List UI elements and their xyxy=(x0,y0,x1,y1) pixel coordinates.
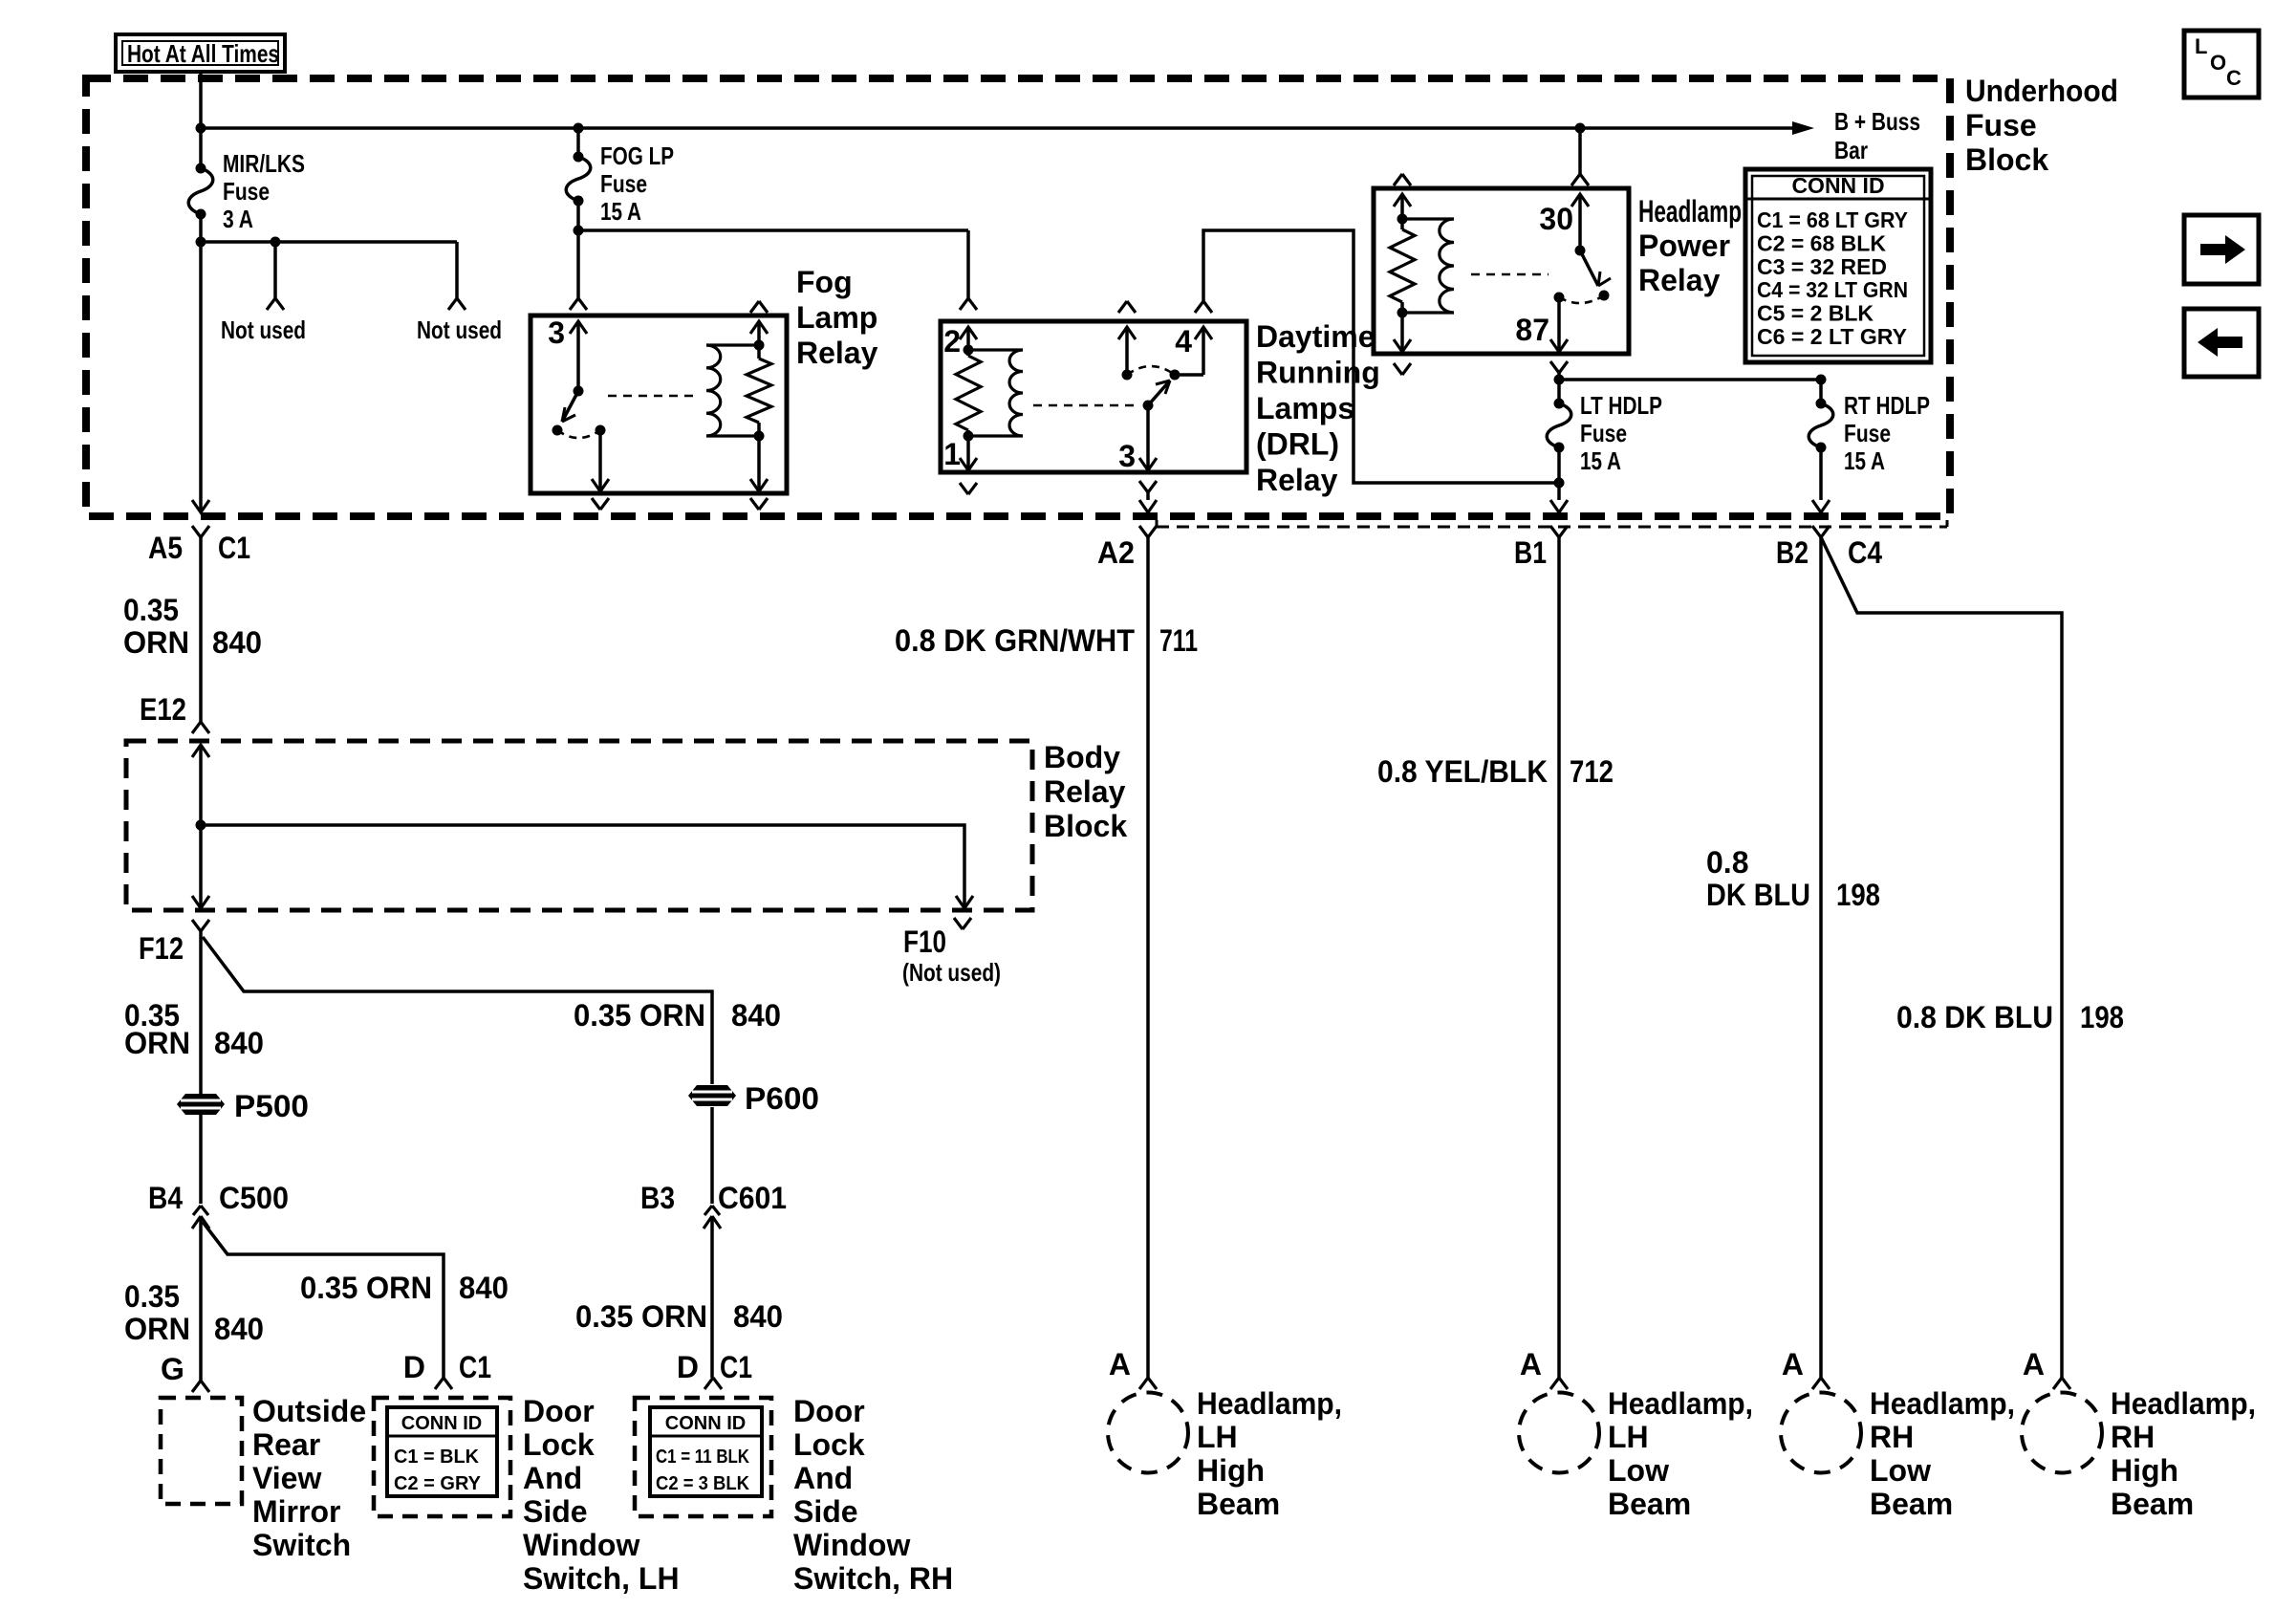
svg-text:C500: C500 xyxy=(219,1181,289,1215)
wire: F12 to P500 / mirror switch xyxy=(199,931,203,1204)
svg-text:ORN: ORN xyxy=(124,1312,190,1346)
table: CONN ID (underhood fuse block) xyxy=(1745,169,1931,362)
coil pin bottom arrow xyxy=(750,479,768,491)
DRL pin 3 exit arrow xyxy=(1139,458,1157,470)
wire: body relay block internal xyxy=(196,745,965,906)
svg-text:Side: Side xyxy=(523,1494,588,1529)
fuse: RT HDLP Fuse 15 A xyxy=(1809,375,1833,453)
E12 entry arrow xyxy=(192,745,209,757)
svg-text:FOG LP: FOG LP xyxy=(600,141,674,170)
svg-text:C1 = 11 BLK: C1 = 11 BLK xyxy=(656,1447,749,1468)
lamp: Headlamp LH Low Beam (dashed circle) xyxy=(1519,1393,1599,1473)
svg-text:198: 198 xyxy=(1836,878,1880,912)
svg-text:Fuse: Fuse xyxy=(1965,108,2037,142)
label: 840 (LH branch) xyxy=(459,1271,509,1305)
svg-text:ORN: ORN xyxy=(123,625,189,660)
svg-text:Running: Running xyxy=(1256,356,1380,390)
label: MIR/LKS Fuse 3 A xyxy=(223,149,305,233)
svg-text:Relay: Relay xyxy=(1256,463,1338,497)
connector: F12 below body relay block xyxy=(192,920,209,931)
svg-text:Not used: Not used xyxy=(417,315,502,344)
svg-text:Not used: Not used xyxy=(221,315,306,344)
label: Outside Rear View Mirror Switch xyxy=(252,1394,366,1562)
svg-text:Low: Low xyxy=(1870,1453,1931,1488)
svg-text:Fuse: Fuse xyxy=(1580,419,1627,447)
label: E12 xyxy=(140,692,186,727)
svg-text:30: 30 xyxy=(1539,202,1573,236)
label: FOG LP Fuse 15 A xyxy=(600,141,674,226)
label: 0.8 DK GRN/WHT xyxy=(895,623,1135,658)
svg-text:Power: Power xyxy=(1638,228,1730,263)
svg-text:Low: Low xyxy=(1608,1453,1669,1488)
svg-text:C4: C4 xyxy=(1848,535,1882,570)
svg-text:C6 = 2 LT GRY: C6 = 2 LT GRY xyxy=(1757,324,1907,349)
label: 840 (G) xyxy=(214,1312,264,1346)
svg-text:A: A xyxy=(1109,1347,1131,1382)
svg-text:3: 3 xyxy=(548,315,565,350)
wire: MIR/LKS fuse output down to A5 xyxy=(196,214,206,511)
svg-text:B4: B4 xyxy=(148,1181,183,1215)
svg-text:0.35 ORN: 0.35 ORN xyxy=(575,1299,707,1334)
svg-text:F12: F12 xyxy=(139,931,184,966)
svg-text:B2: B2 xyxy=(1776,535,1809,570)
svg-text:Window: Window xyxy=(793,1528,910,1562)
label: pin 87 xyxy=(1515,313,1549,347)
svg-text:Beam: Beam xyxy=(2111,1487,2194,1521)
lamp: Headlamp RH High Beam (dashed circle) xyxy=(2022,1393,2102,1473)
svg-text:A: A xyxy=(2023,1347,2045,1382)
connector: E12 (above body relay block) xyxy=(192,722,209,733)
label: B + Buss Bar xyxy=(1834,107,1920,164)
svg-text:D: D xyxy=(677,1350,699,1384)
svg-text:View: View xyxy=(252,1461,321,1495)
svg-text:Lamps: Lamps xyxy=(1256,391,1354,425)
svg-text:0.8: 0.8 xyxy=(1706,845,1748,880)
svg-text:840: 840 xyxy=(212,625,262,660)
component box: Door Lock And Side Window Switch RH (dashed) xyxy=(635,1398,771,1516)
svg-text:C1 = 68 LT GRY: C1 = 68 LT GRY xyxy=(1757,207,1908,232)
coil: fog relay coil xyxy=(706,345,759,436)
svg-text:ORN: ORN xyxy=(124,1026,190,1060)
svg-text:(DRL): (DRL) xyxy=(1256,427,1339,462)
wire: pin 30 from B+ buss xyxy=(1578,128,1582,174)
wire: DRL pin 4 riser xyxy=(1175,327,1203,375)
svg-text:Relay: Relay xyxy=(1044,774,1126,809)
DRL pin 2 entry arrow xyxy=(960,327,977,339)
connector: F10 below body relay block (not used) xyxy=(954,918,971,929)
svg-text:C5 = 2 BLK: C5 = 2 BLK xyxy=(1757,301,1874,326)
svg-text:High: High xyxy=(2111,1453,2178,1488)
svg-text:Switch, LH: Switch, LH xyxy=(523,1561,680,1596)
svg-text:0.8 DK GRN/WHT: 0.8 DK GRN/WHT xyxy=(895,623,1135,658)
wire: DRL pin 4 to LT HDLP fuse output xyxy=(1203,230,1559,483)
svg-text:Rear: Rear xyxy=(252,1427,320,1462)
label: B3 xyxy=(640,1181,675,1215)
connector: fog switch output stub (below box) xyxy=(592,498,609,510)
svg-text:Headlamp,: Headlamp, xyxy=(2111,1386,2256,1421)
wire: DRL pin 3 (switch common) down xyxy=(1146,405,1150,470)
svg-text:Lamp: Lamp xyxy=(796,300,877,335)
svg-text:3: 3 xyxy=(1118,439,1136,473)
connector: A at headlamp RH low beam xyxy=(1782,1347,1830,1389)
label: 712 xyxy=(1570,754,1614,789)
wire: B1 to headlamp LH low xyxy=(1557,537,1561,1378)
svg-text:Beam: Beam xyxy=(1197,1487,1280,1521)
wire: FOG LP fuse output xyxy=(574,201,584,298)
svg-text:C4 = 32 LT GRN: C4 = 32 LT GRN xyxy=(1757,277,1908,302)
label: Body Relay Block xyxy=(1044,740,1127,843)
lamp: Headlamp RH Low Beam (dashed circle) xyxy=(1781,1393,1861,1473)
table: CONN ID (door lock RH) xyxy=(650,1407,762,1496)
label: Daytime Running Lamps (DRL) Relay xyxy=(1256,319,1380,497)
svg-text:3 A: 3 A xyxy=(223,205,253,233)
svg-text:711: 711 xyxy=(1159,623,1198,658)
svg-text:840: 840 xyxy=(731,998,781,1033)
connector: not used stub 1 xyxy=(267,298,284,310)
svg-text:LH: LH xyxy=(1197,1420,1238,1454)
wire: FOG fuse to DRL relay pin 2 xyxy=(578,230,968,298)
svg-text:High: High xyxy=(1197,1453,1265,1488)
label: Headlamp, RH High Beam xyxy=(2111,1386,2256,1521)
wire: feed from Hot At All Times into fuse block xyxy=(199,72,203,168)
link: HPR coil to switch (dashed) xyxy=(1471,273,1549,276)
svg-text:C3 = 32 RED: C3 = 32 RED xyxy=(1757,254,1887,279)
svg-text:C1: C1 xyxy=(720,1350,752,1384)
label: circuit 840 (upper) xyxy=(212,625,262,660)
component box: Outside Rear View Mirror Switch (dashed) xyxy=(161,1398,242,1504)
label: 198 (C4) xyxy=(2080,1000,2124,1034)
boundary arrow A2 xyxy=(1139,500,1157,512)
connector: DRL pin 1 stub (below box) xyxy=(960,483,977,494)
label: B4 xyxy=(148,1181,183,1215)
connector: A at headlamp LH low beam xyxy=(1520,1347,1568,1389)
label: A5 xyxy=(148,531,183,565)
label: Headlamp, LH Low Beam xyxy=(1608,1386,1753,1521)
connector: fog relay pin 3 (outside) xyxy=(570,298,587,310)
svg-text:Block: Block xyxy=(1044,809,1127,843)
label: Headlamp, LH High Beam xyxy=(1197,1386,1342,1521)
label: F10 xyxy=(903,925,946,959)
label box: Hot At All Times xyxy=(116,34,285,72)
svg-text:Lock: Lock xyxy=(523,1427,595,1462)
label: Underhood Fuse Block xyxy=(1965,74,2118,177)
label: 840 (RH lower) xyxy=(733,1299,783,1334)
svg-text:0.8 YEL/BLK: 0.8 YEL/BLK xyxy=(1377,754,1548,789)
label: pin 3 (DRL) xyxy=(1118,439,1136,473)
svg-text:C: C xyxy=(2226,66,2242,90)
svg-text:Bar: Bar xyxy=(1834,136,1868,164)
svg-text:P600: P600 xyxy=(745,1081,819,1116)
connector: DRL pin 3 below box xyxy=(1139,481,1157,500)
DRL pin 4 arrow xyxy=(1195,327,1212,339)
label: 0.35 ORN (LH branch) xyxy=(300,1271,432,1305)
svg-text:A: A xyxy=(1782,1347,1804,1382)
label: C601 xyxy=(718,1181,787,1215)
F10 exit arrow xyxy=(956,896,973,908)
svg-text:Switch: Switch xyxy=(252,1528,351,1562)
wire: junction to RT HDLP fuse xyxy=(1559,378,1821,381)
svg-text:0.35: 0.35 xyxy=(124,1279,180,1314)
label: Headlamp Power Relay xyxy=(1638,194,1742,297)
svg-text:0.35 ORN: 0.35 ORN xyxy=(300,1271,432,1305)
svg-text:Underhood: Underhood xyxy=(1965,74,2118,108)
wire: C4 to headlamp RH high xyxy=(1821,537,2062,1378)
wire: pin 87 output xyxy=(1554,293,1565,353)
pin 30 entry arrow xyxy=(1571,194,1589,207)
svg-text:198: 198 xyxy=(2080,1000,2124,1034)
label: 0.35 ORN (G) xyxy=(124,1279,190,1346)
svg-text:And: And xyxy=(523,1461,582,1495)
label: 0.35 ORN (upper) xyxy=(123,593,189,660)
svg-text:Door: Door xyxy=(523,1394,595,1428)
label: Door Lock And Side Window Switch, LH xyxy=(523,1394,680,1596)
label: Fog Lamp Relay xyxy=(796,265,878,370)
wire: not-used branch xyxy=(201,237,457,299)
switch throw dashed arc (DRL) xyxy=(1127,366,1175,375)
wire: A2 to headlamp LH high xyxy=(1146,537,1150,1378)
label: C4 xyxy=(1848,535,1882,570)
svg-text:B3: B3 xyxy=(640,1181,675,1215)
svg-text:Headlamp,: Headlamp, xyxy=(1608,1386,1753,1421)
svg-text:And: And xyxy=(793,1461,853,1495)
label: G xyxy=(161,1352,184,1386)
resistor: fog relay resistor xyxy=(747,321,771,491)
boundary arrow B2 xyxy=(1812,500,1830,512)
svg-text:87: 87 xyxy=(1515,313,1549,347)
connector: pin 87 below box xyxy=(1550,361,1568,380)
label: 0.8 DK BLU (C4) xyxy=(1896,1000,2053,1034)
label: 840 (RH branch upper) xyxy=(731,998,781,1033)
label: pin 30 xyxy=(1539,202,1573,236)
label: 711 xyxy=(1159,623,1198,658)
switch throw (dashed arc) xyxy=(557,430,600,438)
svg-text:LT HDLP: LT HDLP xyxy=(1580,391,1662,420)
svg-text:LH: LH xyxy=(1608,1420,1649,1454)
svg-text:0.35 ORN: 0.35 ORN xyxy=(574,998,705,1033)
label: C1 (A5) xyxy=(218,531,250,565)
svg-text:Lock: Lock xyxy=(793,1427,865,1462)
lamp: Headlamp LH High Beam (dashed circle) xyxy=(1108,1393,1188,1473)
fuse: MIR/LKS Fuse 3 A xyxy=(188,163,213,220)
DRL unused pin arrow xyxy=(1118,327,1136,339)
connector: A at headlamp LH high beam xyxy=(1109,1347,1157,1389)
svg-text:Relay: Relay xyxy=(796,336,878,370)
connector: HPR coil pin top (above box) xyxy=(1394,174,1411,185)
grommet: P500 xyxy=(177,1094,225,1115)
label: 0.35 ORN (RH lower) xyxy=(575,1299,707,1334)
coil: HPR relay coil xyxy=(1402,219,1454,313)
wire: RT HDLP fuse output xyxy=(1819,447,1823,500)
svg-text:Headlamp,: Headlamp, xyxy=(1870,1386,2015,1421)
relay box: Fog Lamp Relay xyxy=(531,315,787,493)
svg-text:C601: C601 xyxy=(718,1181,787,1215)
label: 0.8 DK BLU (B2) xyxy=(1706,845,1810,912)
wire: DRL fixed contact riser (unused pin) xyxy=(1122,327,1133,381)
connector: G at mirror switch xyxy=(192,1381,209,1392)
connector: fog relay coil pin top xyxy=(750,301,768,313)
pin exit arrow (fog switch output) xyxy=(592,479,609,491)
wire: LT HDLP fuse output xyxy=(1554,380,1565,500)
connector: A5 / C1 below fuse block xyxy=(192,526,209,537)
label: F12 xyxy=(139,931,184,966)
label: 0.8 YEL/BLK xyxy=(1377,754,1548,789)
label: 198 (B2) xyxy=(1836,878,1880,912)
svg-text:A2: A2 xyxy=(1097,535,1135,570)
svg-text:840: 840 xyxy=(214,1026,264,1060)
F12 exit arrow xyxy=(192,896,209,908)
svg-text:Switch, RH: Switch, RH xyxy=(793,1561,953,1596)
svg-text:DK BLU: DK BLU xyxy=(1706,878,1810,912)
connector: HPR coil pin bottom (below box) xyxy=(1394,363,1411,375)
connector: A2 below fuse block xyxy=(1139,526,1157,537)
connector: C601 inline (double chevron) xyxy=(704,1206,721,1229)
svg-text:C2 = 3 BLK: C2 = 3 BLK xyxy=(656,1473,750,1494)
label: pin 4 xyxy=(1175,324,1192,359)
svg-text:840: 840 xyxy=(459,1271,509,1305)
svg-text:Fuse: Fuse xyxy=(223,177,270,206)
label: P600 xyxy=(745,1081,819,1116)
pin 3 entry arrow xyxy=(570,321,587,334)
label: Headlamp, RH Low Beam xyxy=(1870,1386,2015,1521)
connector: DRL unused pin (above box) xyxy=(1118,301,1136,313)
switch throw dashed arc (HPR) xyxy=(1559,295,1604,303)
wire: P600 branch lower xyxy=(710,1107,714,1378)
wire: fog relay switch output xyxy=(596,425,606,492)
svg-text:Beam: Beam xyxy=(1608,1487,1691,1521)
svg-text:Beam: Beam xyxy=(1870,1487,1953,1521)
svg-text:1: 1 xyxy=(943,437,961,471)
connector: DRL pin 4 (above box) xyxy=(1195,301,1212,313)
label: 0.35 ORN (RH branch upper) xyxy=(574,998,705,1033)
resistor: HPR relay resistor xyxy=(1390,194,1415,352)
svg-text:840: 840 xyxy=(733,1299,783,1334)
relay box: Daytime Running Lamps (DRL) Relay xyxy=(941,321,1246,472)
svg-text:Block: Block xyxy=(1965,142,2048,177)
svg-text:CONN ID: CONN ID xyxy=(1791,173,1884,198)
boundary: connector C4 strip (thin dashed) xyxy=(1157,520,1947,527)
label: pin 2 xyxy=(943,324,961,359)
svg-text:840: 840 xyxy=(214,1312,264,1346)
DRL pin 1 exit arrow xyxy=(960,458,977,470)
switch: HPR armature xyxy=(1580,250,1611,301)
node: pin87/fuse junction xyxy=(1554,375,1565,385)
connector: B2 / C4 below fuse block xyxy=(1812,526,1830,537)
relay box: Headlamp Power Relay xyxy=(1374,188,1629,354)
block boundary: Body Relay Block (dashed) xyxy=(126,741,1032,910)
coil: DRL relay coil xyxy=(968,350,1023,436)
svg-text:Headlamp: Headlamp xyxy=(1638,194,1742,228)
wire: B+ buss bar xyxy=(196,121,1815,135)
wire: pin 30 to switch common xyxy=(1575,194,1586,256)
svg-text:Relay: Relay xyxy=(1638,263,1721,297)
label: pin 3 xyxy=(548,315,565,350)
label: C1 (LH) xyxy=(459,1350,491,1384)
HPR coil pin bottom arrow xyxy=(1394,339,1411,352)
svg-text:2: 2 xyxy=(943,324,961,359)
svg-text:E12: E12 xyxy=(140,692,186,727)
svg-text:A: A xyxy=(1520,1347,1542,1382)
connector: A at headlamp RH high beam xyxy=(2023,1347,2070,1389)
label: 840 (LH col mid) xyxy=(214,1026,264,1060)
HPR coil pin top arrow xyxy=(1394,194,1411,207)
svg-text:P500: P500 xyxy=(234,1089,309,1123)
switch: DRL armature xyxy=(1143,370,1180,411)
connector: D at door lock LH xyxy=(435,1378,452,1389)
label: Not used (2) xyxy=(417,315,502,344)
label: D (LH) xyxy=(403,1350,425,1384)
block boundary: Underhood Fuse Block (dashed) xyxy=(86,78,1950,516)
label: B1 xyxy=(1514,535,1547,570)
svg-text:Daytime: Daytime xyxy=(1256,319,1375,354)
label: D (RH) xyxy=(677,1350,699,1384)
wire: bus tap to FOG LP fuse xyxy=(576,128,580,157)
svg-text:C1: C1 xyxy=(218,531,250,565)
table: CONN ID (door lock LH) xyxy=(387,1407,497,1496)
fuse: LT HDLP Fuse 15 A xyxy=(1547,399,1571,453)
svg-text:RT HDLP: RT HDLP xyxy=(1844,391,1930,420)
resistor: DRL relay resistor xyxy=(956,327,981,470)
label: pin 1 xyxy=(943,437,961,471)
connector: pin 30 (above box) xyxy=(1571,174,1589,185)
svg-text:C1 = BLK: C1 = BLK xyxy=(394,1447,480,1468)
label: P500 xyxy=(234,1089,309,1123)
svg-text:Door: Door xyxy=(793,1394,865,1428)
svg-text:D: D xyxy=(403,1350,425,1384)
svg-text:Fog: Fog xyxy=(796,265,853,299)
connector: B1 below fuse block xyxy=(1550,526,1568,537)
wire: F12 branch to door lock RH xyxy=(203,937,712,1084)
svg-text:Fuse: Fuse xyxy=(600,169,647,198)
svg-text:Body: Body xyxy=(1044,740,1120,774)
svg-text:Mirror: Mirror xyxy=(252,1494,340,1529)
label: C1 (RH) xyxy=(720,1350,752,1384)
connector: C500 inline (double chevron) xyxy=(192,1206,209,1229)
legend box: left arrow xyxy=(2184,309,2259,377)
svg-text:Fuse: Fuse xyxy=(1844,419,1891,447)
svg-text:CONN ID: CONN ID xyxy=(401,1413,482,1434)
svg-text:F10: F10 xyxy=(903,925,946,959)
label: Door Lock And Side Window Switch, RH xyxy=(793,1394,953,1596)
pin 87 exit arrow xyxy=(1550,339,1568,352)
svg-text:15 A: 15 A xyxy=(1580,446,1621,475)
svg-text:RH: RH xyxy=(1870,1420,1914,1454)
label: RT HDLP Fuse 15 A xyxy=(1844,391,1930,475)
connector: not used stub 2 xyxy=(448,298,466,310)
svg-text:4: 4 xyxy=(1175,324,1192,359)
wire: fog relay pin 3 to switch xyxy=(574,321,584,397)
grommet: P600 xyxy=(688,1085,736,1106)
svg-text:Hot At All Times: Hot At All Times xyxy=(127,39,279,68)
svg-text:C2 = GRY: C2 = GRY xyxy=(394,1473,482,1494)
svg-text:B1: B1 xyxy=(1514,535,1547,570)
svg-text:Outside: Outside xyxy=(252,1394,366,1428)
wire: B2 to headlamp RH low xyxy=(1819,537,1823,1378)
svg-text:B + Buss: B + Buss xyxy=(1834,107,1920,136)
label: (Not used) xyxy=(902,958,1001,987)
boundary arrow A5 xyxy=(192,500,209,512)
connector: DRL pin 2 (outside) xyxy=(960,298,977,310)
svg-text:712: 712 xyxy=(1570,754,1614,789)
svg-text:Side: Side xyxy=(793,1494,858,1529)
svg-text:15 A: 15 A xyxy=(1844,446,1885,475)
svg-text:0.35: 0.35 xyxy=(123,593,179,627)
label: A2 xyxy=(1097,535,1135,570)
wire: A5 to E12 xyxy=(199,537,203,722)
wire: C500 to mirror switch G xyxy=(199,1216,203,1381)
wire: branch to door lock LH xyxy=(203,1222,444,1378)
svg-text:Headlamp,: Headlamp, xyxy=(1197,1386,1342,1421)
svg-text:O: O xyxy=(2210,51,2226,75)
